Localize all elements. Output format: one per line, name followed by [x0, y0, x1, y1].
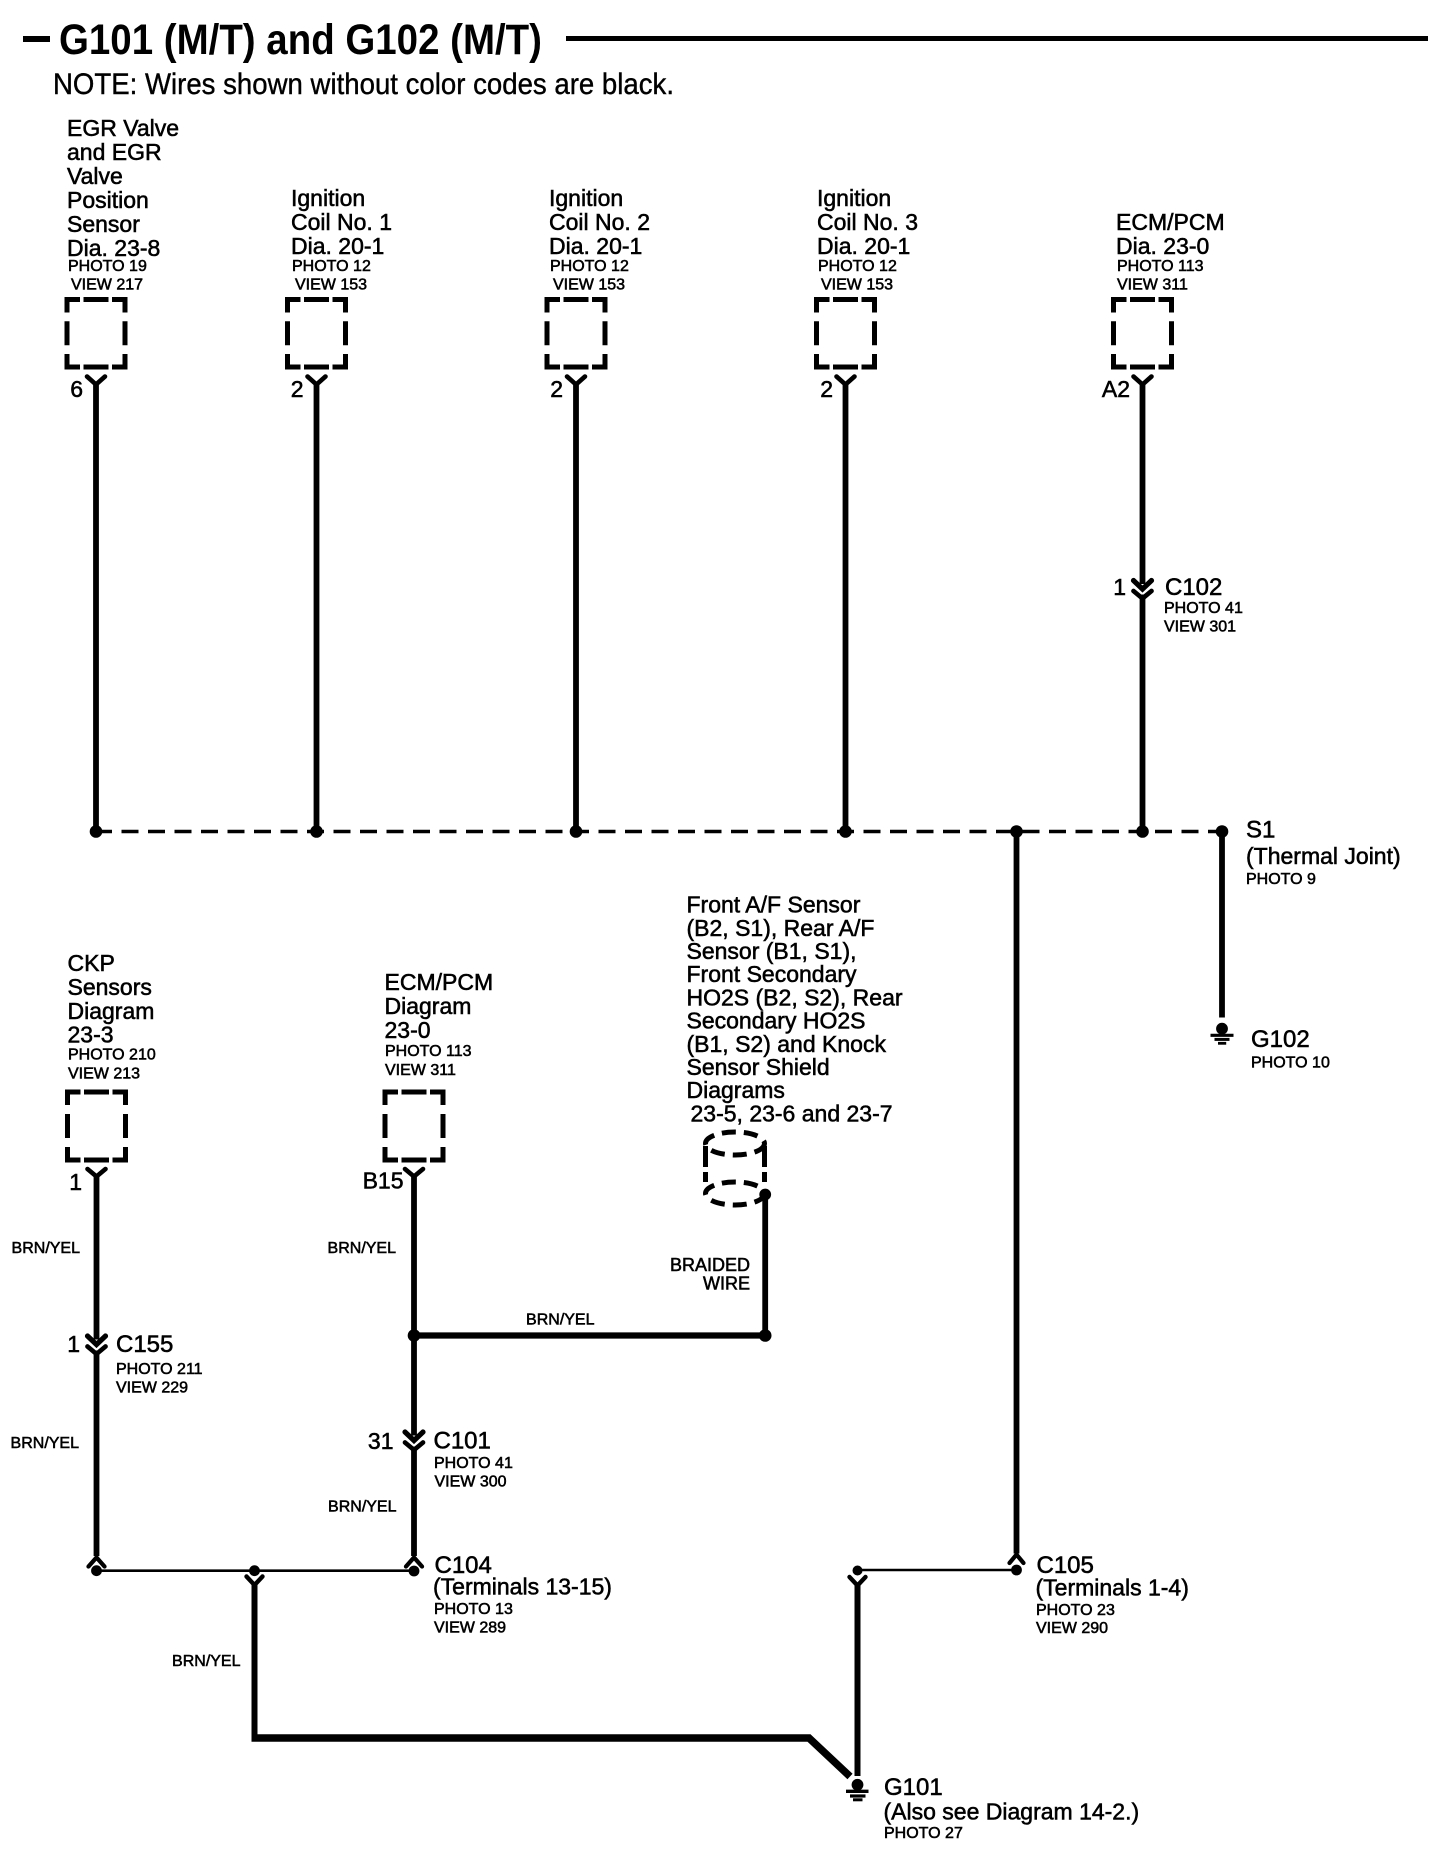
wire coil 2 to bus — [567, 377, 585, 832]
junction dot shield wire — [408, 1329, 421, 1342]
label C105 — [1036, 1552, 1189, 1637]
junction dot bus x1016 — [1010, 825, 1023, 838]
svg-text:WIRE: WIRE — [703, 1274, 750, 1294]
svg-text:PHOTO 27: PHOTO 27 — [884, 1825, 963, 1842]
svg-text:Ignition: Ignition — [817, 185, 891, 211]
wire coil 1 to bus — [308, 377, 326, 832]
connector box ECM/PCM lower — [385, 1092, 443, 1160]
wire CKP to C155 — [88, 1169, 106, 1340]
svg-text:PHOTO 13: PHOTO 13 — [434, 1601, 513, 1618]
connector box ignition coil 1 — [288, 300, 346, 368]
half connector ECM wire end — [406, 1558, 422, 1567]
svg-text:1: 1 — [1113, 574, 1126, 600]
junction dot braided to shield wire — [759, 1329, 772, 1342]
svg-text:Ignition: Ignition — [291, 185, 365, 211]
svg-text:PHOTO 12: PHOTO 12 — [292, 258, 371, 275]
svg-text:HO2S (B2, S2), Rear: HO2S (B2, S2), Rear — [687, 984, 903, 1010]
pin 6 — [70, 376, 83, 402]
label CKP Sensors Diagram 23-3 — [68, 950, 156, 1083]
shield cylinder symbol — [706, 1132, 765, 1205]
svg-text:EGR Valve: EGR Valve — [67, 115, 179, 141]
svg-text:VIEW 311: VIEW 311 — [1117, 277, 1188, 294]
svg-text:BRN/YEL: BRN/YEL — [12, 1240, 81, 1257]
svg-text:PHOTO 19: PHOTO 19 — [68, 258, 147, 275]
junction dot bus x1222 — [1216, 825, 1229, 838]
wire ECM/PCM to C102 — [1134, 377, 1152, 585]
dot C104 left — [91, 1565, 102, 1576]
svg-text:Sensor: Sensor — [67, 211, 140, 237]
svg-text:BRN/YEL: BRN/YEL — [328, 1499, 397, 1516]
dot C104 right — [409, 1566, 420, 1577]
svg-text:PHOTO 12: PHOTO 12 — [818, 258, 897, 275]
svg-text:Dia. 23-0: Dia. 23-0 — [1116, 233, 1209, 259]
svg-text:23-0: 23-0 — [385, 1017, 431, 1043]
svg-text:BRN/YEL: BRN/YEL — [11, 1435, 80, 1452]
svg-text:G102: G102 — [1251, 1026, 1310, 1053]
svg-text:VIEW 217: VIEW 217 — [71, 277, 143, 294]
svg-text:1: 1 — [67, 1331, 80, 1357]
dot C105 left — [853, 1566, 863, 1576]
ground G101 symbol — [846, 1779, 869, 1800]
svg-text:PHOTO 211: PHOTO 211 — [116, 1361, 203, 1378]
half connector below C105 line — [850, 1577, 866, 1586]
svg-text:BRAIDED: BRAIDED — [670, 1255, 750, 1275]
svg-text:31: 31 — [368, 1428, 394, 1454]
svg-text:23-3: 23-3 — [68, 1022, 114, 1048]
dot C105 right — [1011, 1565, 1022, 1576]
wire C102 to bus — [1140, 595, 1146, 832]
svg-text:BRN/YEL: BRN/YEL — [526, 1312, 595, 1329]
ground G102 symbol — [1211, 1023, 1234, 1044]
svg-text:Secondary HO2S: Secondary HO2S — [687, 1008, 866, 1034]
pin 1 at C155 — [67, 1331, 80, 1357]
connector box ignition coil 2 — [547, 300, 605, 368]
svg-text:Sensors: Sensors — [68, 974, 152, 1000]
wire B15 to C101 — [405, 1169, 423, 1436]
svg-text:NOTE: Wires shown without colo: NOTE: Wires shown without color codes ar… — [53, 68, 674, 101]
svg-text:VIEW 229: VIEW 229 — [116, 1380, 188, 1397]
label ECM/PCM top — [1116, 209, 1225, 294]
svg-text:(Thermal Joint): (Thermal Joint) — [1246, 843, 1401, 869]
label C101 — [434, 1428, 513, 1491]
svg-text:C155: C155 — [116, 1331, 173, 1358]
wire C101 to C104 — [411, 1447, 417, 1557]
dot C104 mid — [249, 1565, 260, 1576]
svg-text:PHOTO 41: PHOTO 41 — [1164, 600, 1243, 617]
label C102 — [1164, 574, 1243, 636]
svg-text:1: 1 — [69, 1169, 82, 1195]
svg-text:2: 2 — [820, 376, 833, 402]
svg-text:(Also see Diagram 14-2.): (Also see Diagram 14-2.) — [884, 1799, 1140, 1825]
connector box CKP sensors — [68, 1092, 126, 1160]
svg-text:Coil No. 3: Coil No. 3 — [817, 209, 918, 235]
svg-text:Coil No. 2: Coil No. 2 — [549, 209, 650, 235]
svg-text:VIEW 300: VIEW 300 — [435, 1474, 507, 1491]
svg-text:Coil No. 1: Coil No. 1 — [291, 209, 392, 235]
svg-text:and EGR: and EGR — [67, 139, 162, 165]
svg-text:B15: B15 — [363, 1168, 404, 1194]
half connector below C104 — [247, 1577, 263, 1586]
svg-text:S1: S1 — [1246, 817, 1275, 844]
svg-text:Diagram: Diagram — [68, 998, 155, 1024]
svg-text:VIEW 301: VIEW 301 — [1164, 619, 1236, 636]
junction dot bus x96 — [90, 825, 103, 838]
svg-text:C102: C102 — [1165, 574, 1222, 601]
pin 2 coil 3 — [820, 376, 833, 402]
connector box EGR valve — [67, 300, 125, 368]
connector box ignition coil 3 — [817, 300, 875, 368]
pin 1 CKP — [69, 1169, 82, 1195]
svg-text:C101: C101 — [434, 1428, 491, 1455]
svg-text:ECM/PCM: ECM/PCM — [1116, 209, 1225, 235]
svg-text:23-5, 23-6 and 23-7: 23-5, 23-6 and 23-7 — [691, 1100, 893, 1126]
svg-text:VIEW 153: VIEW 153 — [295, 277, 367, 294]
connector C102 — [1134, 581, 1152, 599]
svg-text:Front A/F Sensor: Front A/F Sensor — [687, 892, 861, 918]
pin A2 — [1102, 376, 1130, 402]
label BRN/YEL B15 upper — [328, 1240, 397, 1257]
label G102 — [1251, 1026, 1330, 1072]
title G101 (M/T) and G102 (M/T) — [23, 16, 542, 64]
wire bus to C105 — [1014, 832, 1020, 1554]
svg-text:PHOTO 210: PHOTO 210 — [68, 1047, 156, 1064]
svg-text:VIEW 311: VIEW 311 — [385, 1062, 456, 1079]
wire C104 to G101 bottom run — [252, 1738, 851, 1777]
label C104 — [433, 1552, 612, 1637]
svg-text:VIEW 289: VIEW 289 — [434, 1620, 506, 1637]
svg-text:VIEW 153: VIEW 153 — [553, 277, 625, 294]
svg-text:PHOTO 9: PHOTO 9 — [1246, 871, 1316, 888]
junction dot bus x845 — [839, 825, 852, 838]
wire coil 3 to bus — [837, 377, 855, 832]
svg-text:Sensor (B1, S1),: Sensor (B1, S1), — [687, 938, 857, 964]
svg-text:BRN/YEL: BRN/YEL — [172, 1653, 241, 1670]
pin 2 coil 1 — [291, 376, 304, 402]
label front A/F sensor shield diagrams — [687, 892, 903, 1127]
connector box ECM/PCM top — [1114, 300, 1172, 368]
thin line C105 terminals — [858, 1569, 1017, 1572]
half connector CKP wire end — [89, 1558, 105, 1567]
junction dot bus x316 — [310, 825, 323, 838]
wire C105 to G101 — [855, 1585, 861, 1776]
label G101 — [884, 1774, 1140, 1842]
svg-text:PHOTO 23: PHOTO 23 — [1036, 1602, 1115, 1619]
svg-text:BRN/YEL: BRN/YEL — [328, 1240, 397, 1257]
svg-text:PHOTO 113: PHOTO 113 — [385, 1043, 472, 1060]
connector C155 — [88, 1336, 106, 1354]
svg-text:(B2, S1), Rear A/F: (B2, S1), Rear A/F — [687, 915, 875, 941]
svg-text:PHOTO 10: PHOTO 10 — [1251, 1055, 1330, 1072]
label Ignition Coil No. 1 — [291, 185, 392, 294]
svg-text:Valve: Valve — [67, 163, 123, 189]
svg-text:2: 2 — [550, 376, 563, 402]
svg-text:VIEW 213: VIEW 213 — [68, 1066, 140, 1083]
svg-text:Diagrams: Diagrams — [687, 1077, 785, 1103]
wire C104 to G101 vertical — [252, 1585, 258, 1735]
connector C101 — [405, 1432, 423, 1450]
junction dot cylinder — [759, 1189, 771, 1201]
svg-text:ECM/PCM: ECM/PCM — [385, 969, 494, 995]
label C155 — [116, 1331, 203, 1397]
label BRN/YEL CKP upper — [12, 1240, 81, 1257]
svg-text:G101: G101 — [884, 1774, 943, 1801]
label BRN/YEL CKP lower — [11, 1435, 80, 1452]
label Ignition Coil No. 2 — [549, 185, 650, 294]
pin 1 at C102 — [1113, 574, 1126, 600]
bus dashed line S1 thermal joint — [95, 830, 1222, 834]
svg-text:Dia. 20-1: Dia. 20-1 — [549, 233, 642, 259]
svg-text:PHOTO 12: PHOTO 12 — [550, 258, 629, 275]
svg-text:A2: A2 — [1102, 376, 1130, 402]
svg-text:PHOTO 41: PHOTO 41 — [434, 1455, 513, 1472]
label BRN/YEL shield wire — [526, 1312, 595, 1329]
svg-text:(B1, S2) and Knock: (B1, S2) and Knock — [687, 1031, 887, 1057]
svg-text:VIEW 153: VIEW 153 — [821, 277, 893, 294]
pin B15 — [363, 1168, 404, 1194]
svg-text:Ignition: Ignition — [549, 185, 623, 211]
wire S1 to G102 — [1219, 832, 1225, 1018]
label BRN/YEL B15 mid — [328, 1499, 397, 1516]
label S1 thermal joint — [1246, 817, 1401, 889]
thin line C104 terminals — [96, 1569, 414, 1572]
braided wire vertical — [762, 1199, 768, 1333]
pin 2 coil 2 — [550, 376, 563, 402]
svg-text:Front Secondary: Front Secondary — [687, 961, 858, 987]
svg-text:6: 6 — [70, 376, 83, 402]
label BRN/YEL to G101 — [172, 1653, 241, 1670]
svg-text:Sensor Shield: Sensor Shield — [687, 1054, 830, 1080]
svg-text:Diagram: Diagram — [385, 993, 472, 1019]
svg-text:G101 (M/T) and G102 (M/T): G101 (M/T) and G102 (M/T) — [59, 16, 542, 64]
wire C155 to C104 line — [94, 1351, 100, 1557]
junction dot bus x576 — [570, 825, 583, 838]
svg-text:(Terminals 1-4): (Terminals 1-4) — [1036, 1575, 1189, 1601]
svg-text:PHOTO 113: PHOTO 113 — [1117, 258, 1204, 275]
note — [53, 68, 674, 101]
svg-text:Dia. 20-1: Dia. 20-1 — [291, 233, 384, 259]
label ECM/PCM Diagram 23-0 lower — [385, 969, 494, 1079]
svg-text:2: 2 — [291, 376, 304, 402]
label EGR Valve and EGR Valve Position Sensor — [67, 115, 179, 294]
wire EGR valve to bus — [87, 377, 105, 832]
svg-text:Dia. 20-1: Dia. 20-1 — [817, 233, 910, 259]
svg-text:VIEW 290: VIEW 290 — [1036, 1620, 1108, 1637]
pin 31 at C101 — [368, 1428, 394, 1454]
svg-text:Position: Position — [67, 187, 149, 213]
label Ignition Coil No. 3 — [817, 185, 918, 294]
svg-text:(Terminals 13-15): (Terminals 13-15) — [433, 1574, 612, 1600]
label BRAIDED WIRE — [670, 1255, 750, 1294]
junction dot bus x1142 — [1136, 825, 1149, 838]
half connector C105 top — [1010, 1555, 1024, 1564]
svg-text:CKP: CKP — [68, 950, 115, 976]
wire to braided shield — [414, 1332, 765, 1338]
title rule — [566, 36, 1428, 41]
